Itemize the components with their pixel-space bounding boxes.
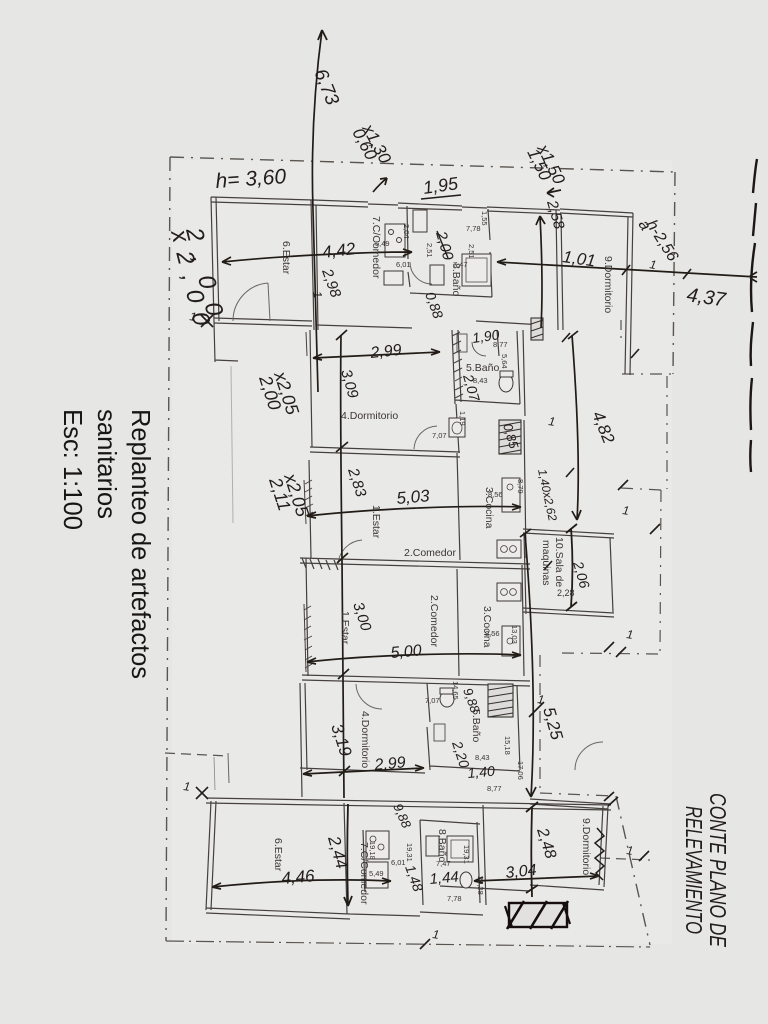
wall: unit A top middle with windows [313,200,560,214]
toilet 5.Bano lower [434,688,454,741]
wall: 8.Bano bottom unit [420,805,486,905]
door arc 4.Dormitorio [414,426,437,449]
svg-text:6.Estar: 6.Estar [280,241,292,275]
svg-text:8,56: 8,56 [488,490,503,499]
door arc 6.Estar [233,283,268,321]
faint terrace line [231,366,233,523]
svg-text:4.Dormitorio: 4.Dormitorio [341,410,398,422]
dim chain vertical x342 [341,335,344,798]
wall: bottom unit bottom [206,886,530,919]
wall: 4.Dorm lower box [300,683,430,797]
svg-text:8,43: 8,43 [473,376,488,385]
boundary patio right [660,490,661,654]
handwriting: CONTE PLANO DE / RELEVAMIENTO [681,793,731,947]
boundary patio bottom [562,653,660,654]
wall: 8.Bano bottom [410,293,492,297]
svg-text:1,40: 1,40 [467,763,496,781]
svg-text:RELEVAMIENTO: RELEVAMIENTO [681,806,707,934]
wall: divider units y560 [300,558,530,569]
door arc 1.Estar lower [338,540,362,564]
svg-text:1.Estar: 1.Estar [339,611,351,645]
svg-text:8,77: 8,77 [487,784,502,793]
bath fixtures 8.Bano lower [426,836,473,888]
wall: long separator y800 [206,798,611,810]
dim line 4,42 [222,249,412,265]
svg-text:maquinas: maquinas [540,540,552,586]
svg-text:3,04: 3,04 [505,862,538,882]
underline 1,95 [421,195,461,199]
svg-text:1,19: 1,19 [458,411,467,426]
wall: spine 6.Estar / 7.C Comedor [311,200,318,330]
wall: sala de maquinas [523,529,614,617]
wall: kitchen bottom unit [363,830,365,892]
svg-text:10.Sala de: 10.Sala de [553,537,565,587]
handwritten dimension labels [165,66,728,894]
hatched shaft lower 5.Bano [488,684,513,717]
svg-text:2,99: 2,99 [369,342,403,362]
wall: 5.Bano lower box [427,686,520,771]
boundary jog left y754 [165,753,228,756]
arrow left 1,50 [547,188,561,197]
kitchen counter upper 7.C [384,224,405,285]
hand digit 1 markers [183,257,658,942]
svg-text:1,55: 1,55 [480,211,489,226]
wall: 7.C Comedor / 8.Bano [407,206,410,287]
wall: mid right of estar [456,404,460,560]
boundary tick marks with 1 labels [420,333,660,949]
sink mid corridor [449,418,465,437]
toilet 5.Bano upper [457,334,513,392]
svg-text:17,06: 17,06 [516,761,525,780]
wall: 9.Dorm lower box [530,799,611,890]
svg-text:7,47: 7,47 [436,859,451,868]
door arc 7.C upper [410,262,432,284]
dim line 2,44 vertical [344,804,352,906]
dim line 4,82 vertical [568,331,581,520]
svg-text:2.Comedor: 2.Comedor [428,595,440,647]
boundary right lower vertical [539,655,541,793]
svg-text:8,43: 8,43 [475,753,490,762]
dim line 2,99 [313,349,440,360]
wall: unit A outer right [625,213,633,375]
svg-text:5.Baño: 5.Baño [466,362,499,374]
svg-text:9.Dormitorio: 9.Dormitorio [602,256,614,313]
svg-text:19,31: 19,31 [405,843,414,862]
door arc 4.Dorm lower [356,684,382,709]
wall: bottom unit left [206,801,216,910]
dim line 5,03 [307,504,521,518]
svg-text:2.Comedor: 2.Comedor [404,547,456,559]
tick at x202 y793 [196,787,208,799]
svg-text:2,28: 2,28 [557,588,575,598]
svg-text:15,18: 15,18 [503,736,512,755]
wall: 6.Estar / 7.C bottom unit [344,803,347,914]
boundary lower jog [540,793,615,796]
svg-text:5,49: 5,49 [375,239,390,248]
svg-text:2,51: 2,51 [467,244,476,259]
svg-text:8.Baño: 8.Baño [436,829,448,862]
wall: mid spine left [306,330,312,676]
dim line 5,25 vertical [520,529,536,797]
printed small dims [368,211,575,903]
kitchen counter bottom unit [366,831,389,888]
bath fixtures 8.Bano upper: tub [413,210,491,286]
svg-text:5.Baño: 5.Baño [470,709,482,742]
svg-text:2,99: 2,99 [373,754,407,774]
svg-text:2,51: 2,51 [425,243,434,258]
svg-text:14,65: 14,65 [451,681,460,700]
svg-text:20,28: 20,28 [476,876,485,895]
boundary right mid [620,320,622,338]
wall: 8.Bano right [488,209,492,297]
printed room labels horizontal [341,362,499,559]
svg-text:4,42: 4,42 [321,239,357,262]
wall: lower mid rooms [457,569,459,676]
svg-text:5,49: 5,49 [369,869,384,878]
wall: divider lower y678 [302,675,530,686]
boundary right bottom diagonal [616,796,650,945]
dim line 2,06 vertical [566,524,577,611]
svg-text:5,00: 5,00 [390,642,423,662]
dim line 5,00 [307,652,521,664]
right margin hand strokes [753,159,757,193]
svg-text:9.Dormitorio: 9.Dormitorio [580,818,592,875]
svg-text:4,46: 4,46 [281,866,316,888]
title text: Replanteo de artefactos sanitarios [58,409,156,679]
wall: 5.Bano upper box [452,330,520,404]
wall: left stub below 6.Estar [214,322,238,362]
dim line 6,73 vertical [312,30,322,392]
dim line 2,99 lower [303,765,424,776]
wall: 9.Dormitorio left [556,210,563,330]
wall: corridor y325 [316,321,543,328]
boundary patio top [621,488,661,490]
kitchen counters mid x505 [497,478,521,656]
svg-text:4.Dormitorio: 4.Dormitorio [359,711,371,768]
svg-text:19,31: 19,31 [462,845,471,864]
hatched wall piece corridor [531,318,543,340]
dim line 2,58 vertical [536,216,545,328]
wall: unit A top over 6.Estar [211,197,313,205]
wall: unit A outer left [211,197,219,322]
svg-text:3.Cocina: 3.Cocina [481,606,493,648]
hatched stair box bottom [505,901,570,929]
wall: 6.Estar bottom [214,318,312,326]
tick at x207 y321 [201,315,213,327]
svg-text:8,79: 8,79 [516,479,525,494]
svg-text:5,03: 5,03 [396,486,431,508]
window lines mid spine [304,332,307,672]
printed room labels rotated [272,216,614,905]
svg-text:8,56: 8,56 [485,629,500,638]
svg-text:7,78: 7,78 [447,894,462,903]
svg-text:1,44: 1,44 [429,869,460,888]
svg-text:7,78: 7,78 [466,224,481,233]
hatched shaft upper kitchen [499,420,521,454]
svg-text:6,01: 6,01 [391,858,406,867]
dim line 4,46 [212,878,391,889]
boundary dash-dot lot line left [166,157,170,941]
dim line 3,04 [474,873,599,883]
boundary right upper [673,172,675,374]
squiggle 9.Dorm wall [595,828,604,880]
hatch: divider left end [302,558,338,570]
svg-text:13,03: 13,03 [510,625,519,644]
arrow up-right near 1,95 [373,178,387,192]
wall: kitchen corridor x525 [522,330,526,676]
boundary dash connector y859 [600,858,650,860]
svg-text:19,18: 19,18 [368,841,377,860]
dim line 2,48 vertical [526,802,538,897]
svg-text:sanitarios: sanitarios [92,409,122,519]
svg-text:Replanteo de artefactos: Replanteo de artefactos [126,409,156,679]
dim line 1,01 / 4,37 [497,259,757,282]
boundary bottom [166,941,650,947]
hand marks right end separator [604,792,618,806]
svg-text:1.Estar: 1.Estar [370,505,382,539]
boundary top [170,157,675,172]
plan paper lighter zone [172,160,672,944]
door arc 8.Bano lower [575,742,603,770]
svg-text:6.Estar: 6.Estar [272,838,284,872]
boundary jog y374 [622,373,673,375]
svg-text:Esc: 1:100: Esc: 1:100 [58,409,88,530]
svg-text:5,64: 5,64 [500,354,509,369]
handwritten 2,00 over 2,51 kitchen [422,228,500,346]
svg-text:7,07: 7,07 [432,431,447,440]
svg-text:7,47: 7,47 [453,260,468,269]
svg-text:7,07: 7,07 [425,696,440,705]
svg-text:CONTE PLANO DE: CONTE PLANO DE [705,793,731,947]
wall: 4.Dormitorio bottom [310,447,460,457]
svg-text:6,01: 6,01 [396,260,411,269]
wall: unit A top right 9.Dormitorio [560,209,633,217]
svg-text:2,04: 2,04 [402,224,411,239]
